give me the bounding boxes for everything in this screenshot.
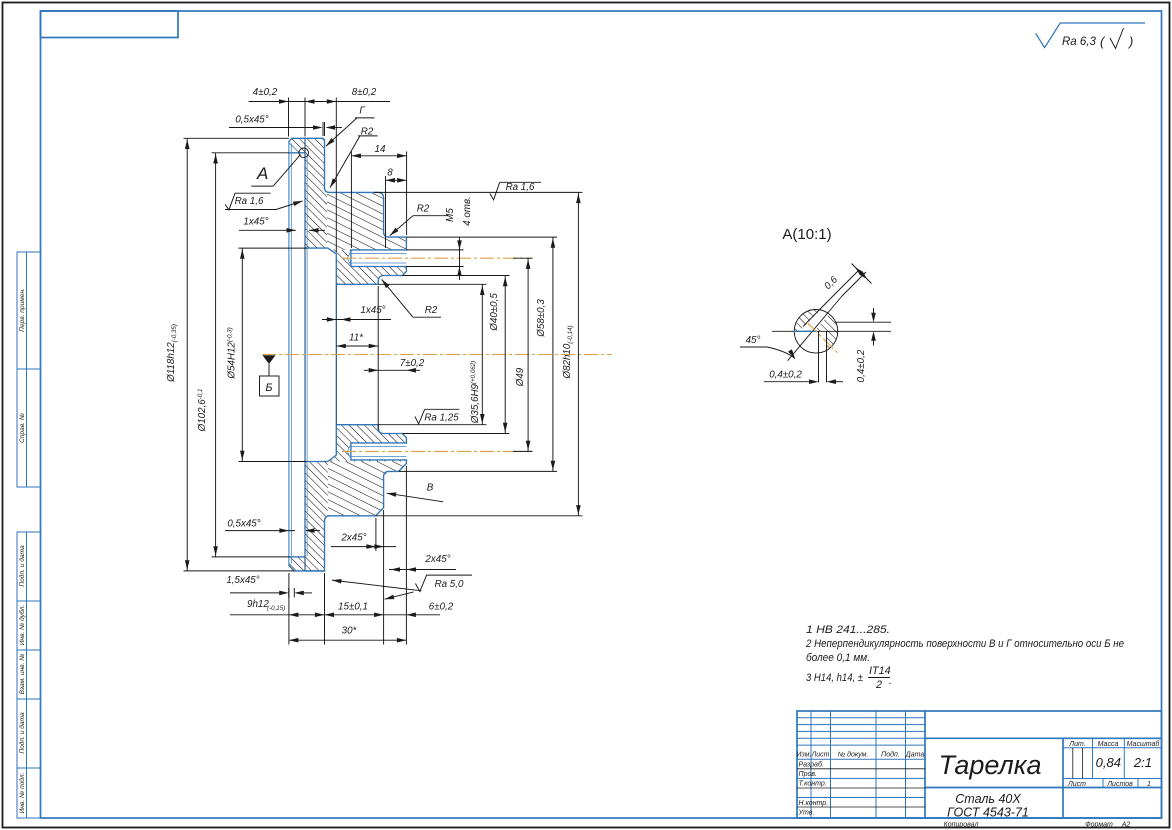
bottom rim edges	[289, 557, 325, 571]
lower hole axis	[342, 450, 533, 452]
svg-text:1х45°: 1х45°	[360, 305, 385, 316]
svg-text:более 0,1 мм.: более 0,1 мм.	[806, 652, 870, 664]
svg-text:М5: М5	[445, 208, 456, 222]
svg-text:№ докум.: № докум.	[838, 751, 869, 759]
svg-text:IT14: IT14	[869, 665, 891, 677]
svg-text:0,84: 0,84	[1096, 755, 1121, 770]
svg-text:8: 8	[387, 168, 393, 179]
svg-text:1х45°: 1х45°	[243, 217, 268, 228]
svg-text:0,5х45°: 0,5х45°	[235, 115, 268, 126]
svg-text:9h12: 9h12	[247, 599, 269, 610]
svg-text:R2: R2	[361, 127, 374, 138]
center axis	[262, 354, 612, 356]
svg-text:2: 2	[875, 679, 882, 691]
disc outer chamfer line	[290, 144, 292, 564]
svg-text:4±0,2: 4±0,2	[253, 87, 278, 98]
leader lines	[251, 118, 448, 599]
upper hole axis	[342, 257, 533, 259]
svg-text:3 Н14, h14, ±: 3 Н14, h14, ±	[806, 672, 863, 684]
svg-text:Г: Г	[359, 106, 365, 117]
svg-text:0,4±0,2: 0,4±0,2	[856, 349, 867, 382]
left margin column boxes	[17, 252, 41, 818]
svg-text:Листов: Листов	[1106, 781, 1133, 788]
svg-text:Лит.: Лит.	[1068, 741, 1085, 748]
svg-text:Масса: Масса	[1098, 741, 1119, 748]
svg-text:0,5х45°: 0,5х45°	[227, 519, 260, 530]
svg-text:Подп. и дата: Подп. и дата	[18, 545, 26, 587]
svg-text:Формат: Формат	[1085, 822, 1113, 829]
hatch: upper flange ring	[305, 138, 406, 284]
svg-text:Ra 6,3: Ra 6,3	[1062, 36, 1096, 48]
svg-text:Инв. № подл.: Инв. № подл.	[18, 772, 26, 813]
detail A marker circle	[299, 148, 309, 158]
svg-text:Лист: Лист	[1067, 781, 1086, 788]
svg-text:Ra 1,25: Ra 1,25	[424, 413, 459, 424]
svg-text:7±0,2: 7±0,2	[400, 358, 425, 369]
disc inner face	[304, 138, 306, 571]
svg-text:Ra 5,0: Ra 5,0	[435, 579, 464, 590]
svg-text:1 НВ 241...285.: 1 НВ 241...285.	[806, 624, 890, 636]
svg-text:R2: R2	[425, 305, 438, 316]
disc inner chamfer line	[306, 154, 308, 556]
roughness symbols on view	[225, 182, 541, 591]
svg-text:Лист: Лист	[810, 752, 829, 759]
svg-text:30*: 30*	[342, 626, 358, 637]
svg-text:45°: 45°	[746, 335, 761, 346]
svg-text:8±0,2: 8±0,2	[352, 87, 377, 98]
dimension arrows	[185, 99, 581, 642]
svg-text:Взам. инв. №: Взам. инв. №	[19, 654, 26, 695]
datum symbol Б	[260, 355, 280, 396]
svg-text:Ø49: Ø49	[515, 367, 526, 387]
svg-text:R2: R2	[417, 204, 430, 215]
svg-text:Масштаб: Масштаб	[1127, 740, 1161, 748]
svg-text:Ø40±0,5: Ø40±0,5	[489, 293, 500, 332]
hatch: lower flange ring	[305, 425, 406, 571]
disc outer face	[288, 142, 290, 566]
top-left rotated stamp box	[41, 11, 179, 38]
dimension lines	[187, 102, 578, 641]
svg-text:11*: 11*	[349, 333, 364, 344]
flat-angle hatch zone lower boss belt	[328, 462, 407, 516]
svg-text:Сталь 40Х: Сталь 40Х	[955, 792, 1021, 806]
detail circle	[794, 310, 838, 354]
svg-text:Ra 1,6: Ra 1,6	[235, 196, 264, 207]
svg-text:Ø58±0,3: Ø58±0,3	[536, 299, 547, 338]
svg-text:2:1: 2:1	[1133, 755, 1152, 770]
svg-text:Дата: Дата	[905, 752, 925, 759]
svg-text:Разраб.: Разраб.	[799, 761, 824, 769]
extension lines black	[184, 98, 583, 645]
groove axis orange	[807, 322, 839, 354]
svg-text:Инв. № дубл.: Инв. № дубл.	[18, 605, 26, 646]
top rim edges	[289, 138, 305, 153]
svg-text:Н.контр.: Н.контр.	[799, 800, 829, 807]
bore left face	[335, 284, 337, 424]
svg-text:1: 1	[1147, 781, 1151, 788]
svg-text:Ra 1,6: Ra 1,6	[506, 182, 535, 193]
svg-text:Тарелка: Тарелка	[938, 750, 1041, 780]
hatch: bottom rim sliver	[289, 557, 305, 571]
svg-text:.: .	[889, 675, 892, 687]
part outline: upper flange ring	[305, 138, 406, 284]
svg-text:Справ. №: Справ. №	[19, 413, 26, 443]
groove walls + dims	[740, 264, 891, 383]
svg-text:4 отв.: 4 отв.	[462, 196, 473, 226]
left margin labels	[18, 288, 26, 814]
part outline: lower flange ring	[305, 425, 406, 571]
svg-text:6±0,2: 6±0,2	[429, 602, 454, 613]
svg-text:Подп.: Подп.	[881, 751, 900, 759]
svg-text:Подп. и дата: Подп. и дата	[18, 712, 26, 754]
svg-text:Пров.: Пров.	[799, 771, 818, 778]
svg-text:2 Неперпендикулярность поверхн: 2 Неперпендикулярность поверхности В и Г…	[805, 638, 1124, 650]
svg-text:14: 14	[375, 144, 386, 155]
dimension value labels	[226, 87, 535, 637]
svg-text:А2: А2	[1121, 822, 1131, 829]
svg-text:А(10:1): А(10:1)	[782, 226, 831, 243]
svg-text:2х45°: 2х45°	[340, 533, 366, 544]
rotated diameter dimension labels	[166, 196, 574, 432]
svg-text:Утв.: Утв.	[798, 810, 815, 817]
svg-text:2х45°: 2х45°	[424, 554, 450, 565]
face line	[772, 330, 891, 332]
hatch: top rim band	[289, 138, 305, 153]
svg-text:А: А	[256, 164, 268, 183]
flat-angle hatch zone upper boss belt	[327, 192, 406, 250]
M5 hole lower	[351, 443, 407, 460]
svg-text:Б: Б	[265, 382, 272, 394]
svg-text:В: В	[427, 483, 434, 494]
svg-text:15±0,1: 15±0,1	[338, 602, 368, 613]
svg-text:Перв. примен.: Перв. примен.	[19, 288, 26, 332]
svg-text:Т.контр.: Т.контр.	[799, 781, 827, 788]
face chord blue	[794, 330, 816, 332]
svg-text:1,5х45°: 1,5х45°	[226, 575, 259, 586]
svg-text:0,4±0,2: 0,4±0,2	[769, 369, 802, 380]
groove surface diagonals	[788, 296, 842, 361]
svg-text:Изм.: Изм.	[797, 752, 812, 759]
svg-text:Копировал: Копировал	[944, 822, 979, 829]
M5 hole upper	[351, 250, 407, 267]
svg-text:ГОСТ 4543-71: ГОСТ 4543-71	[947, 806, 1029, 820]
svg-text:(-0,15): (-0,15)	[267, 605, 285, 612]
